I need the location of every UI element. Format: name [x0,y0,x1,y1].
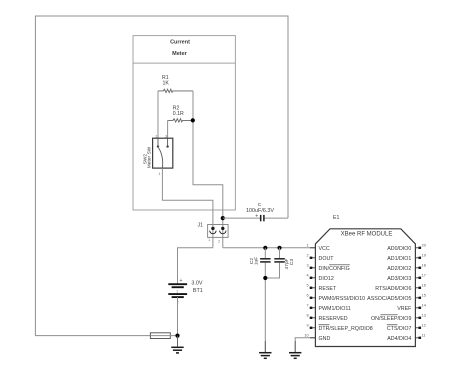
wire: battery minus down to fuse junction [177,297,179,336]
svg-text:0.1R: 0.1R [173,111,184,117]
pin 17 AD3/DIO3 (right) [387,274,426,283]
svg-text:19: 19 [422,254,426,258]
svg-text:Current: Current [170,39,190,45]
pin 18 AD2/DIO2 (right) [387,264,426,273]
block: Current Meter title divider [133,62,235,64]
svg-text:3: 3 [165,134,167,138]
svg-text:2: 2 [306,254,308,258]
svg-text:100uF/6.3V: 100uF/6.3V [246,208,274,214]
resistor R2 0.1R [168,119,193,122]
pin 16 RTS/AD6/DIO6 (right) [375,284,426,293]
resistor R1 1K [158,89,193,92]
svg-text:16: 16 [422,284,426,288]
battery BT1 3.0V [168,284,187,297]
wire: R1 right rail down and over to J1 right pin [193,91,223,248]
svg-text:1: 1 [159,172,161,176]
pin 12 CTS/DIO7 (right) [387,324,426,333]
svg-text:RTS/AD6/DIO6: RTS/AD6/DIO6 [375,286,411,292]
wire: J1 left pin down to battery plus [178,248,213,284]
svg-text:C3: C3 [289,259,295,265]
pin 15 ASSOC/AD5/DIO5 (right) [367,294,426,303]
connector J1 [208,225,229,238]
svg-text:2: 2 [156,134,158,138]
pin 6 PWM0/RSSI/DIO10 (left) [306,294,365,303]
svg-text:AD3/DIO3: AD3/DIO3 [387,276,411,282]
svg-text:3.0V: 3.0V [191,280,202,286]
svg-text:RESET: RESET [319,286,337,292]
svg-text:5: 5 [306,284,308,288]
wire: junction to cap C left plate [223,217,260,219]
pin 9 DTR/SLEEP_RQ/DIO8 (left) [306,324,372,333]
capacitor C2 1uF [260,259,271,262]
junction: battery minus / fuse / ground [175,334,179,338]
svg-text:6: 6 [306,294,308,298]
svg-text:12: 12 [422,324,426,328]
svg-text:AD4/DIO4: AD4/DIO4 [387,336,411,342]
wire: R1 left to switch pin A [157,91,159,138]
svg-text:1K: 1K [163,80,170,86]
wire: outer loop left/top/right (battery negative rail) [35,16,288,336]
pin 11 AD4/DIO4 (right) [387,334,425,343]
svg-text:ON/SLEEP/DIO9: ON/SLEEP/DIO9 [371,316,411,322]
svg-text:3: 3 [306,264,308,268]
svg-text:ASSOC/AD5/DIO5: ASSOC/AD5/DIO5 [367,296,411,302]
svg-text:GND: GND [319,336,331,342]
capacitor C3 47pF [274,259,285,262]
IC block E1 XBee RF Module outline [315,229,415,347]
junction: C2/C3 bottom [263,276,267,280]
svg-text:E1: E1 [333,215,339,221]
pin 14 VREF (right) [397,304,426,313]
svg-text:18: 18 [422,264,426,268]
svg-text:1: 1 [208,238,210,242]
svg-text:DTR/SLEEP_RQ/DIO8: DTR/SLEEP_RQ/DIO8 [319,326,373,332]
svg-text:AD2/DIO2: AD2/DIO2 [387,266,411,272]
svg-text:10: 10 [304,334,308,338]
svg-text:DIO12: DIO12 [319,276,334,282]
svg-text:14: 14 [422,304,426,308]
ground: below XBee GND [289,341,301,358]
svg-text:CTS/DIO7: CTS/DIO7 [387,326,411,332]
capacitor C 100uF/6.3V [261,215,264,221]
pin 4 DIO12 (left) [306,274,333,283]
junction: J1 right pin to cap C [221,216,225,220]
svg-text:VCC: VCC [319,246,330,252]
wire: cap C right plate to outer loop [265,217,288,219]
svg-text:1uF: 1uF [254,257,260,265]
pin 20 AD0/DIO0 (right) [387,244,426,253]
pin 19 AD1/DIO1 (right) [387,254,426,263]
svg-text:1: 1 [306,244,308,248]
ground: below C2/C3 [259,341,271,358]
svg-text:BT1: BT1 [193,288,203,294]
svg-text:PWM1/DIO11: PWM1/DIO11 [319,306,351,312]
svg-text:Meter SW: Meter SW [147,146,153,168]
svg-text:8: 8 [306,314,308,318]
svg-text:AD1/DIO1: AD1/DIO1 [387,256,411,262]
ground: below battery junction [171,336,183,353]
fuse (bottom, in battery return) [150,333,177,339]
svg-text:15: 15 [422,294,426,298]
svg-text:17: 17 [422,274,426,278]
svg-text:DIN/CONFIG: DIN/CONFIG [319,266,350,272]
wire: C2 bottom lead to ground [264,263,266,353]
svg-text:4: 4 [306,274,308,278]
junction: VCC rail at C2 [263,246,267,250]
svg-text:9: 9 [306,324,308,328]
svg-text:VREF: VREF [397,306,412,312]
junction: R2 right on rail [191,118,195,122]
svg-text:20: 20 [422,244,426,248]
svg-text:XBee RF MODULE: XBee RF MODULE [341,231,393,237]
svg-text:11: 11 [422,334,426,338]
svg-text:+: + [255,214,258,220]
svg-text:13: 13 [422,314,426,318]
pin 8 RESERVED (left) [306,314,347,323]
junction: VCC rail at C3 [277,246,281,250]
pin 13 ON/SLEEP/DIO9 (right) [371,314,426,323]
wire: C3 top lead [279,248,281,258]
svg-text:1: 1 [176,289,178,293]
wire: XBee GND pin10 to ground [295,338,315,353]
svg-text:AD0/DIO0: AD0/DIO0 [387,246,411,252]
svg-text:RESERVED: RESERVED [319,316,348,322]
svg-text:+: + [180,278,183,284]
svg-text:J1: J1 [198,222,204,228]
switch SW2 Meter SW [153,138,173,168]
wire: J1 right pin down / VCC rail to XBee pin1 [223,247,316,249]
pin 3 DIN/CONFIG (left) [306,264,349,273]
svg-text:Meter: Meter [172,51,188,57]
wire: C2 top lead [264,248,266,258]
pin 7 PWM1/DIO11 (left) [306,304,350,313]
svg-text:2: 2 [218,239,220,243]
wire: switch bottom to J1 left pin [162,168,213,248]
block: Current Meter box [133,36,235,210]
pin 2 DOUT (left) [306,254,334,263]
pin 10 GND (left) [304,334,330,343]
svg-text:DOUT: DOUT [319,256,335,262]
wire: C3 bottom lead over to C2 lead [265,263,279,279]
pin 1 VCC (left) [306,244,329,253]
pin 5 RESET (left) [306,284,336,293]
wire: R2 left to switch pin B [167,120,169,138]
svg-text:PWM0/RSSI/DIO10: PWM0/RSSI/DIO10 [319,296,366,302]
svg-text:7: 7 [306,304,308,308]
